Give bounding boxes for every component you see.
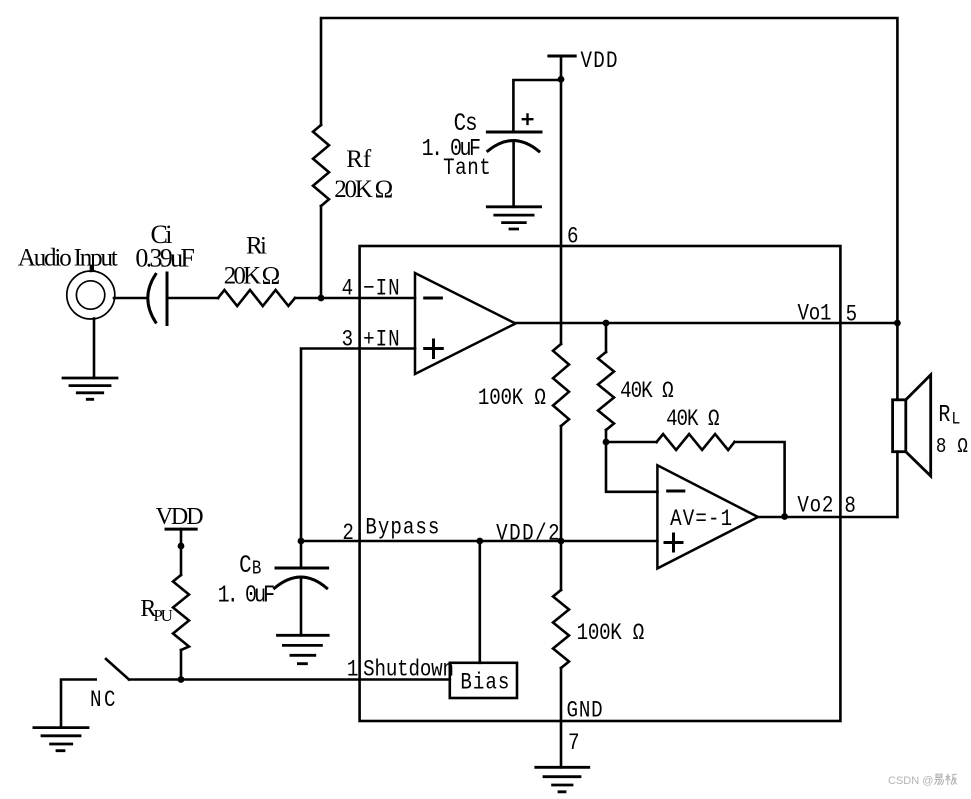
svg-text:Ri: Ri: [246, 233, 267, 260]
svg-text:VDD: VDD: [580, 49, 617, 75]
svg-text:100K Ω: 100K Ω: [478, 385, 546, 411]
svg-text:Audio Input: Audio Input: [18, 245, 118, 272]
svg-text:VDD/2: VDD/2: [496, 521, 559, 547]
svg-text:5: 5: [846, 302, 858, 328]
svg-text:Vo1: Vo1: [797, 301, 831, 327]
svg-text:Tant: Tant: [443, 155, 491, 181]
svg-text:GND: GND: [566, 698, 602, 724]
svg-text:6: 6: [567, 224, 579, 250]
svg-text:40K Ω: 40K Ω: [666, 407, 720, 433]
svg-text:Cs: Cs: [454, 109, 478, 137]
svg-text:L: L: [951, 408, 960, 429]
svg-text:Bypass: Bypass: [365, 515, 439, 541]
svg-text:2: 2: [342, 521, 354, 547]
svg-text:AV=-1: AV=-1: [670, 507, 732, 533]
svg-text:8 Ω: 8 Ω: [936, 435, 968, 459]
svg-text:4: 4: [342, 276, 354, 302]
svg-text:7: 7: [568, 730, 580, 756]
svg-text:R: R: [938, 402, 950, 429]
svg-text:0.39uF: 0.39uF: [135, 244, 195, 273]
svg-text:3: 3: [342, 327, 354, 353]
svg-text:Shutdown: Shutdown: [363, 657, 454, 683]
svg-text:VDD: VDD: [156, 504, 204, 530]
svg-text:1. 0uF: 1. 0uF: [218, 582, 275, 609]
svg-text:100K Ω: 100K Ω: [577, 621, 645, 647]
svg-text:20K Ω: 20K Ω: [334, 176, 393, 203]
svg-text:20K Ω: 20K Ω: [224, 262, 280, 289]
svg-text:+IN: +IN: [363, 327, 399, 353]
svg-text:Vo2: Vo2: [797, 493, 833, 519]
svg-text:C: C: [239, 551, 252, 579]
svg-text:−IN: −IN: [363, 276, 399, 302]
svg-text:CSDN @: CSDN @: [888, 775, 933, 787]
svg-text:1: 1: [347, 657, 359, 683]
svg-text:PU: PU: [153, 606, 173, 625]
svg-text:8: 8: [844, 494, 856, 520]
svg-text:Bias: Bias: [460, 670, 509, 696]
svg-text:B: B: [252, 558, 261, 580]
svg-text:Rf: Rf: [346, 146, 372, 173]
svg-text:40K Ω: 40K Ω: [620, 379, 674, 405]
